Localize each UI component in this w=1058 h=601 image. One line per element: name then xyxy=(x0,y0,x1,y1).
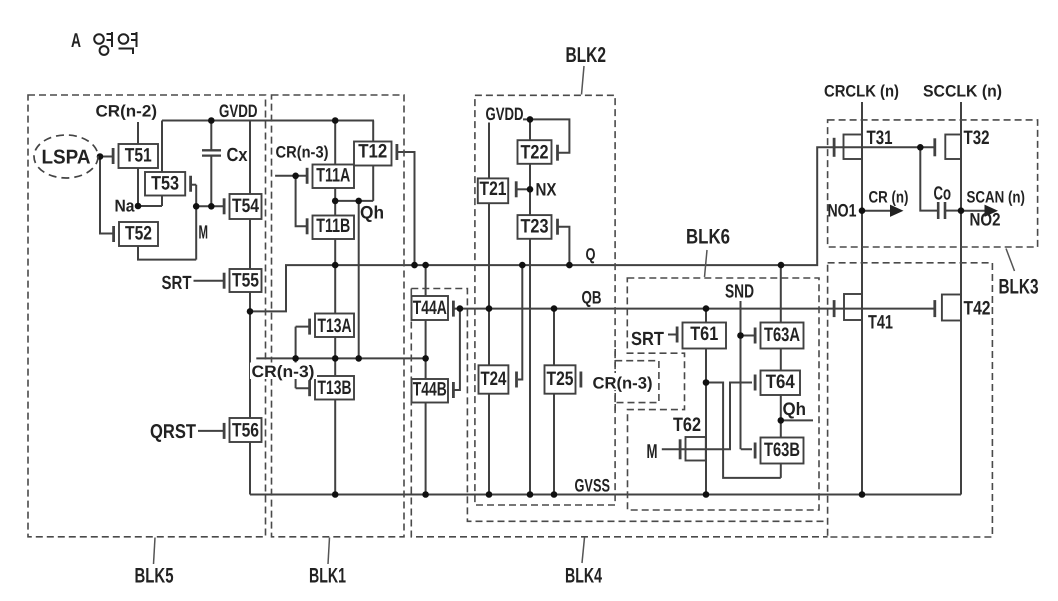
wire: T13A/T13B stem xyxy=(334,265,336,494)
node Qh junction xyxy=(332,198,339,205)
label CR(n-3) 2 xyxy=(250,363,317,382)
junction GVSS-T13B xyxy=(332,491,339,498)
wire: LSPA node down to T52 gate xyxy=(100,157,114,234)
transistor T63B xyxy=(755,438,803,464)
junction GVDD-Cx xyxy=(208,117,215,124)
transistor T13B xyxy=(310,376,354,400)
svg-text:T54: T54 xyxy=(232,195,259,217)
svg-text:A: A xyxy=(71,30,81,52)
junction Cx-M line xyxy=(208,203,215,210)
transistor T61 xyxy=(677,323,726,349)
transistor T53 xyxy=(145,172,191,196)
wire: T32 gate drop to Co xyxy=(920,147,937,210)
svg-text:LSPA: LSPA xyxy=(42,147,91,169)
node NO1 arrow CR(n) xyxy=(862,205,904,217)
svg-text:M: M xyxy=(199,223,209,244)
transistor T11B xyxy=(307,215,354,239)
wire: CR(n-2) / T51 stem xyxy=(137,122,139,206)
svg-text:T42: T42 xyxy=(964,298,991,320)
wire: T63A T64 T63B stem xyxy=(780,265,782,478)
wire: T61 T62 stem xyxy=(705,309,707,495)
wire: T56 stem to GVSS xyxy=(249,311,251,494)
wire: T44B gate drop xyxy=(453,309,460,390)
junction GVSS-T41 xyxy=(859,491,866,498)
svg-text:T44A: T44A xyxy=(413,297,447,319)
transistor T44A xyxy=(412,296,454,320)
wire: CR(n-3) to T13 gates xyxy=(256,357,295,359)
junction Q-T12 gate xyxy=(411,262,418,269)
svg-text:T64: T64 xyxy=(766,371,795,393)
junction GVSS-T24 xyxy=(486,491,493,498)
svg-text:NO1: NO1 xyxy=(828,201,857,221)
block BLK6 box with notch xyxy=(627,278,819,510)
wire: T53 stem xyxy=(161,121,163,207)
transistor T32 xyxy=(935,135,961,160)
wire: CR(n-3) to T11A gate xyxy=(275,175,307,177)
svg-text:T12: T12 xyxy=(358,141,387,163)
svg-text:T61: T61 xyxy=(690,323,718,345)
wire: GVSS rail xyxy=(250,494,961,496)
wire: GVDD2 drop T21 T24 stem xyxy=(488,123,490,495)
svg-text:SRT: SRT xyxy=(631,329,664,350)
wire: T25 stem xyxy=(553,309,555,495)
svg-text:T13B: T13B xyxy=(318,377,352,399)
wire: T12 stem xyxy=(372,121,374,201)
svg-text:CR(n-3): CR(n-3) xyxy=(276,144,329,162)
junction Qh-down xyxy=(355,198,362,205)
svg-text:T51: T51 xyxy=(125,145,152,167)
node NO2 arrow SCAN(n) xyxy=(961,205,998,217)
wire: T44A/T44B stem xyxy=(425,265,427,494)
wire: T12 gate to Q xyxy=(397,152,415,265)
svg-text:BLK4: BLK4 xyxy=(565,565,602,588)
junction QB-T61 xyxy=(703,305,710,312)
node Q rail xyxy=(250,147,934,311)
junction LSPA gate node xyxy=(97,153,104,160)
transistor T41 xyxy=(834,294,862,320)
svg-text:QB: QB xyxy=(582,288,602,308)
transistor T24 xyxy=(479,365,517,393)
transistor T56 xyxy=(224,418,261,442)
svg-text:BLK3: BLK3 xyxy=(999,276,1039,299)
junction Q-T63A xyxy=(778,262,785,269)
svg-text:GVSS: GVSS xyxy=(575,476,611,496)
svg-text:NX: NX xyxy=(536,180,557,200)
wire: GVDD2 to T22 loop xyxy=(523,119,569,152)
wire: Qh stub xyxy=(781,419,813,421)
svg-text:T24: T24 xyxy=(480,368,506,390)
block BLK2 box xyxy=(475,95,615,505)
svg-text:CR(n-2): CR(n-2) xyxy=(96,103,158,121)
node NO1 junction xyxy=(859,207,866,214)
svg-text:T13A: T13A xyxy=(318,315,352,337)
svg-text:Qh: Qh xyxy=(360,203,384,223)
junction CR(n-3) T13 gates xyxy=(292,355,299,362)
wire: T21 gate to NX xyxy=(516,188,530,190)
transistor T55 xyxy=(224,269,261,292)
svg-text:NO2: NO2 xyxy=(970,210,1001,230)
block BLK3 bottom box xyxy=(828,263,993,537)
svg-text:CRCLK (n): CRCLK (n) xyxy=(824,83,899,101)
svg-text:GVDD: GVDD xyxy=(486,104,524,124)
wire: T22 NX T23 stem xyxy=(529,119,531,494)
junction Q-T44A xyxy=(422,262,429,269)
block BLK1 box xyxy=(272,95,405,537)
block BLK5 box xyxy=(28,95,266,537)
svg-text:M: M xyxy=(647,441,658,463)
transistor T44B xyxy=(412,379,454,403)
wire: SRT2 to T61 gate xyxy=(668,334,678,336)
svg-text:T52: T52 xyxy=(125,223,152,245)
transistor T51 xyxy=(113,144,158,168)
svg-text:T11A: T11A xyxy=(316,164,350,186)
svg-text:SCAN (n): SCAN (n) xyxy=(967,189,1026,207)
wire: Qh vertical to mid line xyxy=(358,201,360,359)
svg-text:T63A: T63A xyxy=(764,324,800,346)
svg-text:T22: T22 xyxy=(521,141,549,163)
svg-text:Qh: Qh xyxy=(783,399,807,419)
svg-text:T63B: T63B xyxy=(764,439,800,461)
wire: GVDD rail top-left xyxy=(162,120,374,122)
wire: T23 gate loop to Q xyxy=(559,227,570,265)
wire: T54/T55/T56 stem xyxy=(249,121,251,312)
svg-text:QRST: QRST xyxy=(150,421,196,443)
transistor T52 xyxy=(114,222,158,246)
junction Q-T24 gate xyxy=(519,262,526,269)
wire: SRT to T55 gate xyxy=(194,280,225,282)
transistor T42 xyxy=(935,295,961,321)
svg-text:BLK2: BLK2 xyxy=(566,43,607,67)
junction GVDD-T11A xyxy=(332,117,339,124)
leader BLK6 xyxy=(705,250,708,277)
capacitor Co xyxy=(934,184,961,220)
wire: CRCLK T31 T41 stem xyxy=(861,102,863,495)
svg-text:Cx: Cx xyxy=(227,145,248,166)
node NO2 junction xyxy=(958,207,965,214)
wire: Qh node horizontal xyxy=(335,200,373,202)
svg-text:T25: T25 xyxy=(547,368,574,390)
junction GVSS-T23 xyxy=(527,491,534,498)
label CR(n-3) 3 xyxy=(591,373,656,393)
node Na junction xyxy=(135,203,142,210)
transistor T54 xyxy=(224,194,261,219)
junction QB-T25 xyxy=(551,305,558,312)
junction QB-T21 xyxy=(486,305,493,312)
junction GVSS-T25 xyxy=(551,491,558,498)
svg-text:T53: T53 xyxy=(151,172,179,194)
svg-text:T44B: T44B xyxy=(413,379,447,401)
node Qh2 junction xyxy=(778,417,785,424)
leader BLK4 xyxy=(582,538,585,564)
leader BLK1 xyxy=(328,538,330,565)
block small box around CR(n-3) xyxy=(615,349,659,413)
svg-text:BLK6: BLK6 xyxy=(686,226,730,249)
svg-text:GVDD: GVDD xyxy=(219,101,258,121)
junction Q-T23 gate xyxy=(566,262,573,269)
wire: T53 gate wire xyxy=(191,184,197,186)
block BLK3 top box xyxy=(828,120,1038,247)
junction Qh-midline xyxy=(355,355,362,362)
svg-text:T23: T23 xyxy=(521,215,549,237)
node NX junction xyxy=(527,186,534,193)
junction GVSS-T44B xyxy=(422,491,429,498)
wire: SCCLK T32 T42 stem xyxy=(960,102,962,495)
transistor T64 xyxy=(755,371,800,396)
wire: LSPA to T51 gate xyxy=(97,156,113,158)
transistor T21 xyxy=(478,178,516,203)
ellipse LSPA xyxy=(34,135,98,178)
transistor T31 xyxy=(834,135,862,160)
svg-text:T32: T32 xyxy=(964,127,990,149)
junction T32 gate xyxy=(917,144,924,151)
wire: T52 source path xyxy=(138,246,196,260)
node QB rail xyxy=(453,308,934,310)
transistor T63A xyxy=(755,323,803,349)
svg-text:CR(n-3): CR(n-3) xyxy=(252,363,315,381)
node mid line xyxy=(296,357,426,359)
node M junction xyxy=(193,203,200,210)
junction T44 mid xyxy=(422,355,429,362)
wire: QRST to T56 gate xyxy=(198,430,224,432)
svg-text:T56: T56 xyxy=(232,420,259,442)
leader BLK2 xyxy=(582,66,585,95)
svg-text:T31: T31 xyxy=(867,127,893,149)
svg-text:T11B: T11B xyxy=(316,215,350,237)
svg-text:Q: Q xyxy=(586,245,596,264)
transistor T13A xyxy=(310,314,354,338)
svg-text:CR(n-3): CR(n-3) xyxy=(593,375,653,393)
wire: T11A/T11B stem xyxy=(334,121,336,266)
wire: T13 gate bracket xyxy=(296,327,310,389)
svg-text:SCCLK (n): SCCLK (n) xyxy=(923,83,1002,101)
svg-text:SRT: SRT xyxy=(162,273,192,294)
junction T55-Q xyxy=(247,308,254,315)
svg-text:Co: Co xyxy=(934,184,952,205)
wire: M line to Cx and T54 gate xyxy=(196,205,224,207)
svg-text:SND: SND xyxy=(725,282,754,303)
capacitor Cx xyxy=(202,121,248,207)
svg-text:T55: T55 xyxy=(232,269,259,291)
junction CR(n-3) T11 gates xyxy=(292,173,299,180)
transistor T11A xyxy=(307,164,354,188)
wire: M node vertical xyxy=(195,185,197,260)
wire: CR(n-3) bracket to T11B gate xyxy=(296,176,307,227)
wire: Na to T53 bottom segment xyxy=(138,205,162,207)
wire: SND vertical xyxy=(741,301,756,449)
leader BLK5 xyxy=(154,538,156,565)
svg-text:CR (n): CR (n) xyxy=(869,189,909,207)
wire: M2 line to T64 and T63B gates xyxy=(662,383,752,450)
wire: T61 bottom to T63B source xyxy=(706,383,781,478)
junction SND-T63A gate xyxy=(737,332,744,339)
svg-text:BLK1: BLK1 xyxy=(309,565,346,588)
junction GVSS-T62 xyxy=(703,491,710,498)
svg-text:Na: Na xyxy=(115,197,135,216)
transistor T62 xyxy=(680,437,706,461)
junction Q-T11B xyxy=(332,262,339,269)
junction T13 mid xyxy=(332,355,339,362)
wire: T24 gate to Q xyxy=(518,265,522,379)
junction GVDD2-T22 xyxy=(527,116,534,123)
label A region (Korean) xyxy=(71,30,137,55)
svg-text:T41: T41 xyxy=(868,311,893,333)
transistor T12 xyxy=(354,141,397,166)
svg-text:BLK5: BLK5 xyxy=(135,565,174,588)
block BLK4 outline xyxy=(411,289,827,537)
junction T61-T62 node xyxy=(703,379,710,386)
svg-text:T21: T21 xyxy=(480,178,507,200)
transistor T23 xyxy=(518,215,558,239)
junction QB-T44B gate xyxy=(457,305,464,312)
leader BLK3 xyxy=(1006,249,1015,272)
svg-text:T62: T62 xyxy=(673,414,701,436)
transistor T22 xyxy=(518,140,558,164)
transistor T25 xyxy=(545,365,581,393)
